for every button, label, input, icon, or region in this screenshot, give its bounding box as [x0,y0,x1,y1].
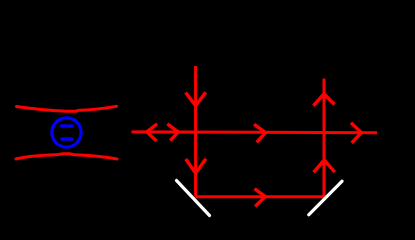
arrowhead: left vertical lower (points down) [186,159,206,174]
arrowhead: double-arrow right head (points right) [167,124,178,141]
arrowhead: left vertical upper (points down) [186,92,206,105]
arrowhead: bottom beam (points right) [255,189,266,207]
arrowhead: right vertical lower (points up) [314,160,335,172]
mirror M1 (white, bottom-left) [177,181,210,216]
atom U1: two-level atom circle [52,118,81,147]
mirror M2 (white, bottom-right) [309,181,342,215]
arrowhead: main beam mid (points right) [254,124,266,142]
arrowhead: double-arrow left head (points left) [147,124,157,141]
cavity mirror bottom (red arc) [16,154,117,159]
arrowhead: output beam (points right) [351,123,362,143]
wire: main horizontal beam [132,130,378,134]
arrowhead: right vertical upper (points up) [313,94,334,106]
atom upper level bar [60,124,73,127]
wire: bottom horizontal beam [196,195,324,198]
wire: left vertical beam [196,66,199,197]
wire: right vertical beam [321,79,324,197]
atom lower level bar [60,137,73,140]
cavity mirror top (red arc) [17,107,77,112]
